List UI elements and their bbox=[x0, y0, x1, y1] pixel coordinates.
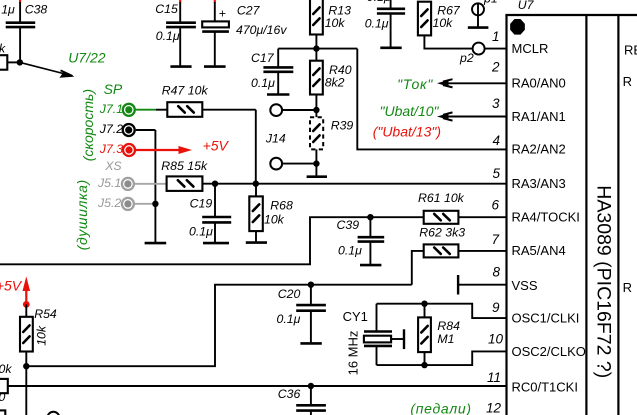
capacitor C20 bbox=[277, 285, 326, 344]
svg-text:C39: C39 bbox=[337, 218, 360, 232]
resistor R85 bbox=[161, 159, 208, 191]
svg-text:1μ: 1μ bbox=[1, 2, 15, 16]
ground bar under C17 bbox=[267, 93, 289, 96]
resistor stub (left edge, 0k) bbox=[0, 42, 20, 70]
red arrow +5V bbox=[23, 276, 31, 304]
ground bar under C39 bbox=[360, 264, 381, 267]
node junction R54 bottom bbox=[23, 363, 29, 369]
ground bar under C15 bbox=[170, 65, 191, 68]
svg-text:RC0/T1CKI: RC0/T1CKI bbox=[512, 379, 578, 394]
capacitor C17 bbox=[251, 49, 293, 95]
svg-text:0.1μ: 0.1μ bbox=[251, 76, 275, 90]
svg-text:R61 10k: R61 10k bbox=[418, 191, 465, 205]
resistor R61 bbox=[418, 191, 507, 224]
svg-text:10k: 10k bbox=[325, 16, 346, 30]
svg-text:"Ток": "Ток" bbox=[397, 76, 433, 92]
svg-text:R: R bbox=[623, 74, 632, 89]
resistor R68 bbox=[249, 184, 293, 243]
node junction at C38 bbox=[17, 59, 23, 65]
pin 1 marker (octagon) bbox=[511, 20, 524, 34]
svg-text:10k: 10k bbox=[264, 212, 285, 226]
svg-text:CY1: CY1 bbox=[343, 309, 368, 324]
svg-text:R68: R68 bbox=[270, 198, 293, 212]
svg-text:XS: XS bbox=[104, 159, 122, 173]
wire OSC2 net (bottom of crystal to pin 10) bbox=[377, 351, 507, 365]
svg-text:R: R bbox=[623, 280, 632, 295]
svg-text:M1: M1 bbox=[437, 332, 454, 346]
svg-text:p1: p1 bbox=[483, 0, 498, 6]
resistor R40 bbox=[310, 49, 352, 110]
component stub (bottom left corner) bbox=[0, 410, 5, 415]
wire riser to pin 4 (RA2/AN2) bbox=[357, 49, 506, 150]
svg-text:R39: R39 bbox=[331, 118, 354, 132]
capacitor C15 bbox=[155, 0, 196, 67]
ground bar under C20 bbox=[300, 342, 321, 345]
connector pin stub (bottom edge) bbox=[47, 412, 59, 415]
resistor R67 bbox=[418, 2, 473, 49]
svg-text:U7/22: U7/22 bbox=[68, 50, 106, 66]
capacitor 0.1u (top middle) bbox=[365, 0, 405, 48]
node junction R13/R40 bbox=[313, 45, 319, 51]
svg-text:0.1μ: 0.1μ bbox=[367, 0, 391, 4]
svg-text:RB7: RB7 bbox=[624, 43, 637, 58]
wire R54 down to edge bbox=[25, 366, 27, 415]
pin 2 wire RA0/AN0 with arrow bbox=[437, 79, 507, 87]
svg-text:8k2: 8k2 bbox=[325, 75, 345, 89]
node junction J5.2 / J7.2 wire bbox=[152, 201, 158, 207]
svg-text:0.1μ: 0.1μ bbox=[277, 312, 301, 326]
node red junction +5V bbox=[23, 301, 30, 308]
ground bar under C27 bbox=[204, 65, 226, 68]
VSS termination bar bbox=[458, 275, 506, 295]
svg-text:p2: p2 bbox=[459, 51, 474, 65]
svg-text:10k: 10k bbox=[433, 16, 454, 30]
resistor R13 bbox=[310, 0, 351, 49]
node junction R40/J14.1 bbox=[313, 107, 319, 113]
capacitor C19 bbox=[189, 184, 231, 243]
wire pin 11 net (RC0/T1CKI long wire) bbox=[8, 385, 507, 387]
svg-text:RA1/AN1: RA1/AN1 bbox=[512, 109, 566, 124]
svg-text:0.1μ: 0.1μ bbox=[338, 244, 362, 258]
connector pin J14.2 bbox=[270, 158, 316, 170]
svg-text:J7.3: J7.3 bbox=[99, 142, 123, 156]
svg-text:("Ubat/13"): ("Ubat/13") bbox=[373, 124, 441, 140]
connector pin J5.1 bbox=[97, 176, 167, 190]
node junction C19 tap bbox=[212, 181, 218, 187]
svg-text:3: 3 bbox=[492, 96, 500, 111]
node junction C39 tap bbox=[367, 214, 373, 220]
svg-text:(душилка): (душилка) bbox=[74, 179, 90, 250]
svg-text:7: 7 bbox=[491, 232, 499, 247]
svg-text:R84: R84 bbox=[437, 319, 460, 333]
svg-text:U7: U7 bbox=[518, 0, 535, 12]
wire R47 down to pin5 net bbox=[255, 110, 257, 184]
connector pin p2 bbox=[459, 43, 507, 65]
node junction R39/J14.2 bbox=[313, 160, 319, 166]
svg-text:OSC2/CLKO: OSC2/CLKO bbox=[512, 344, 586, 359]
node junction C20 bbox=[308, 282, 314, 288]
red arrow to +5V bbox=[136, 146, 192, 154]
wire C17 to pin4 riser bbox=[278, 48, 357, 50]
connector pin J7.2 bbox=[99, 122, 156, 136]
svg-text:RA5/AN4: RA5/AN4 bbox=[512, 243, 566, 258]
svg-text:RA2/AN2: RA2/AN2 bbox=[512, 142, 566, 157]
svg-text:C38: C38 bbox=[25, 3, 48, 17]
svg-text:12: 12 bbox=[486, 401, 502, 415]
svg-text:C36: C36 bbox=[278, 387, 301, 401]
op-amp U7 chip body (PIC16F72) bbox=[505, 15, 637, 415]
svg-text:0.1μ: 0.1μ bbox=[156, 29, 180, 43]
capacitor C36 bbox=[278, 386, 326, 415]
node junction R84 top bbox=[421, 301, 427, 307]
node junction R68 tap bbox=[253, 181, 259, 187]
svg-text:5: 5 bbox=[492, 166, 500, 181]
svg-text:SP: SP bbox=[104, 81, 123, 97]
svg-text:OSC1/CLKI: OSC1/CLKI bbox=[512, 310, 580, 325]
svg-text:10: 10 bbox=[488, 332, 504, 347]
connector pin J7.1 bbox=[99, 102, 167, 116]
wire pin5 net (RA3/AN3) bbox=[202, 183, 506, 185]
svg-text:"Ubat/10": "Ubat/10" bbox=[380, 103, 440, 119]
svg-text:11: 11 bbox=[487, 370, 501, 385]
svg-text:C17: C17 bbox=[251, 51, 275, 65]
connector pin J7.3 bbox=[99, 142, 135, 156]
resistor R54 bbox=[20, 304, 57, 366]
resistor R47 bbox=[162, 83, 256, 116]
wire arrow to U7/22 bbox=[22, 63, 75, 78]
wire R54 net to C20/R62 bbox=[26, 285, 412, 367]
svg-text:C15: C15 bbox=[155, 2, 178, 16]
svg-text:16 MHz: 16 MHz bbox=[345, 331, 360, 376]
ground bar under 0.1u cap bbox=[380, 46, 401, 49]
svg-text:2: 2 bbox=[491, 59, 500, 74]
svg-text:(педали): (педали) bbox=[410, 400, 471, 415]
svg-text:0.1μ: 0.1μ bbox=[365, 16, 389, 30]
svg-text:R54: R54 bbox=[34, 307, 57, 321]
ground bar under J7.2 wire bbox=[145, 242, 167, 245]
wire OSC1 net (top of crystal to pin 9) bbox=[377, 304, 507, 318]
resistor R62 bbox=[419, 225, 506, 257]
ground bar under C19 bbox=[203, 242, 229, 245]
svg-text:J14: J14 bbox=[265, 132, 286, 146]
capacitor C38 bbox=[1, 0, 47, 62]
svg-text:+5V: +5V bbox=[203, 137, 230, 153]
svg-text:0.1μ: 0.1μ bbox=[189, 225, 213, 239]
svg-text:J5.1: J5.1 bbox=[97, 176, 121, 190]
svg-text:C20: C20 bbox=[278, 287, 301, 301]
node junction R84 bottom bbox=[421, 362, 427, 368]
resistor R84 bbox=[418, 304, 460, 365]
ground under R39 bbox=[307, 164, 327, 177]
wire J7.2 vertical bbox=[154, 130, 156, 243]
connector pin J14.1 bbox=[270, 104, 316, 116]
capacitor C27 (electrolytic) bbox=[202, 0, 287, 67]
connector pin p1 bbox=[468, 0, 498, 28]
svg-text:0k: 0k bbox=[0, 362, 12, 376]
svg-text:C19: C19 bbox=[190, 197, 213, 211]
svg-text:J7.2: J7.2 bbox=[99, 122, 123, 136]
svg-text:+5V: +5V bbox=[0, 278, 23, 294]
pin 3 wire RA1/AN1 with arrow bbox=[437, 112, 507, 120]
svg-text:RA0/AN0: RA0/AN0 bbox=[512, 76, 566, 91]
svg-text:9: 9 bbox=[492, 300, 500, 315]
svg-text:R47 10k: R47 10k bbox=[162, 83, 209, 97]
svg-text:RA3/AN3: RA3/AN3 bbox=[512, 176, 566, 191]
capacitor C39 bbox=[337, 217, 385, 265]
node junction C36 bbox=[308, 383, 314, 389]
svg-text:+: + bbox=[219, 7, 226, 21]
svg-text:1: 1 bbox=[492, 29, 500, 44]
svg-text:R85 15k: R85 15k bbox=[161, 159, 208, 173]
svg-text:J5.2: J5.2 bbox=[97, 196, 121, 210]
ground bar under R68 bbox=[246, 241, 267, 244]
svg-text:R62 3k3: R62 3k3 bbox=[419, 225, 465, 239]
resistor R39 (dashed) bbox=[310, 110, 353, 164]
svg-text:8: 8 bbox=[492, 265, 500, 280]
svg-text:6: 6 bbox=[491, 197, 499, 212]
svg-text:VSS: VSS bbox=[512, 278, 538, 293]
svg-text:C27: C27 bbox=[237, 4, 261, 18]
crystal CY1 bbox=[343, 304, 404, 376]
wire long net to R61 (душилка net) bbox=[0, 217, 424, 264]
svg-text:RA4/TOCKI: RA4/TOCKI bbox=[512, 210, 580, 225]
wire R62 left to +5V net bbox=[412, 251, 424, 285]
svg-text:k: k bbox=[0, 42, 6, 56]
svg-text:HA3089 (PIC16F72 ?): HA3089 (PIC16F72 ?) bbox=[593, 185, 615, 378]
resistor stub (bottom left) bbox=[0, 362, 12, 404]
svg-text:470μ/16v: 470μ/16v bbox=[236, 23, 287, 37]
svg-text:(скорость): (скорость) bbox=[80, 89, 96, 161]
svg-text:MCLR: MCLR bbox=[512, 41, 549, 56]
svg-text:4: 4 bbox=[492, 133, 500, 148]
svg-text:0: 0 bbox=[0, 390, 6, 404]
connector pin J5.2 bbox=[97, 196, 152, 210]
svg-text:10k: 10k bbox=[34, 325, 48, 346]
svg-text:J7.1: J7.1 bbox=[99, 102, 123, 116]
